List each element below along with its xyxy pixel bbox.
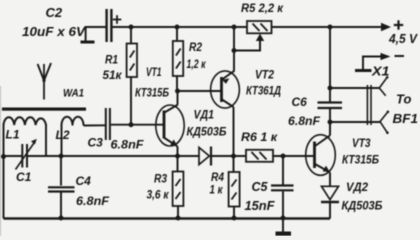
svg-text:L2: L2: [56, 128, 70, 142]
capacitor C4: [48, 156, 75, 219]
svg-text:R1: R1: [105, 55, 118, 67]
capacitor C5: [271, 156, 294, 219]
svg-text:WA1: WA1: [63, 88, 84, 100]
node VT1 collector / R2 / VT2 base: [175, 89, 180, 94]
wire main bus: [4, 155, 315, 157]
node jack bottom: [328, 120, 333, 125]
svg-text:6.8nF: 6.8nF: [111, 138, 145, 152]
node R1-C3-VT1 base: [129, 122, 134, 127]
svg-text:C1: C1: [16, 170, 32, 184]
resistor R5 trimmer: [247, 21, 272, 33]
wire top rail right: [272, 26, 383, 28]
terminal +4.5V: [381, 20, 403, 31]
svg-text:10uF x 6V: 10uF x 6V: [22, 25, 87, 39]
resistor R3: [173, 156, 184, 219]
svg-text:6.8nF: 6.8nF: [76, 194, 110, 208]
svg-text:C5: C5: [252, 180, 269, 194]
svg-text:VT3: VT3: [352, 138, 371, 150]
node L2-C4: [59, 154, 64, 159]
node rail-VT2: [232, 25, 237, 30]
antenna WA1: [38, 63, 51, 100]
capacitor C6: [318, 103, 343, 136]
svg-text:VT2: VT2: [255, 70, 275, 82]
terminal X1 minus: [355, 53, 404, 71]
capacitor C3: [106, 108, 164, 140]
svg-text:C2: C2: [46, 5, 63, 20]
svg-text:VД2: VД2: [346, 182, 369, 194]
svg-text:L1: L1: [6, 128, 20, 142]
transistor VT3: [306, 122, 336, 186]
inductor L1: [4, 117, 47, 218]
svg-text:1,2 к: 1,2 к: [187, 59, 207, 71]
svg-text:51к: 51к: [103, 70, 123, 82]
transistor VT1: [156, 91, 184, 156]
node C5 top: [281, 154, 286, 159]
svg-text:15nF: 15nF: [245, 199, 275, 213]
diode VD1: [199, 147, 211, 166]
resistor R4: [229, 156, 240, 219]
svg-text:To: To: [396, 92, 411, 107]
wire jack top: [330, 87, 379, 89]
node L1 bottom: [1, 154, 6, 159]
svg-text:BF1: BF1: [393, 112, 419, 126]
svg-text:C4: C4: [76, 174, 92, 188]
node VD1-R4-VT2: [231, 154, 236, 159]
node rail-R1: [129, 25, 134, 30]
wire C6 branch top: [329, 27, 331, 102]
node rail-C6: [328, 25, 333, 30]
connector X1 jack: [367, 76, 389, 134]
wire VT2 base: [178, 90, 222, 92]
ferrite rod: [2, 108, 86, 111]
resistor R2: [173, 27, 183, 91]
capacitor C2: [107, 9, 122, 42]
inductor L2: [62, 117, 106, 156]
svg-text:КТ315Б: КТ315Б: [135, 88, 169, 100]
svg-text:VД1: VД1: [194, 110, 215, 122]
svg-text:R6 1 к: R6 1 к: [241, 132, 278, 144]
node rail C5: [281, 216, 286, 221]
node jack top: [328, 86, 333, 91]
svg-text:КД503Б: КД503Б: [187, 127, 227, 139]
svg-text:3,6 к: 3,6 к: [147, 190, 170, 202]
svg-text:C6: C6: [292, 95, 308, 109]
capacitor C1 variable: [16, 139, 37, 170]
wire top rail left: [112, 26, 247, 28]
svg-text:4,5 V: 4,5 V: [388, 31, 418, 46]
wire jack bottom: [330, 121, 380, 123]
node rail R3: [176, 216, 181, 221]
wire bottom rail: [4, 217, 331, 219]
svg-text:КТ361Д: КТ361Д: [246, 86, 281, 98]
svg-text:R5 2,2 к: R5 2,2 к: [241, 1, 284, 15]
diode VD2: [321, 186, 339, 218]
svg-text:1 к: 1 к: [210, 185, 224, 197]
transistor VT2: [211, 27, 240, 156]
svg-text:C3: C3: [88, 136, 104, 150]
svg-text:R4: R4: [211, 172, 225, 184]
node rail R4: [232, 216, 237, 221]
wire scan edge artifact: [0, 86, 2, 236]
node rail-R2: [175, 25, 180, 30]
svg-text:R2: R2: [189, 42, 203, 54]
resistor R6: [246, 150, 273, 162]
ground: [276, 219, 292, 236]
svg-text:VT1: VT1: [146, 67, 162, 79]
node rail C4: [59, 216, 64, 221]
svg-text:КД503Б: КД503Б: [342, 201, 383, 213]
node VT1 emitter-R3: [175, 154, 180, 159]
wire R5 wiper: [232, 34, 265, 53]
svg-text:R3: R3: [154, 174, 168, 186]
svg-text:КТ315Б: КТ315Б: [342, 155, 379, 167]
resistor R1: [127, 27, 137, 125]
svg-text:6.8nF: 6.8nF: [288, 114, 321, 128]
wire C2 negative stub: [81, 27, 107, 42]
